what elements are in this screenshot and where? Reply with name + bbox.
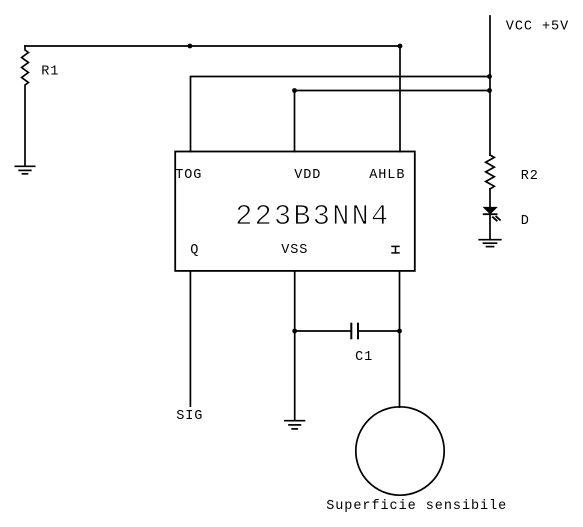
IC U1 223B3NN4 box: [175, 152, 415, 271]
resistor R2: [486, 155, 495, 189]
wire TOG pin to VCC rail: [191, 77, 490, 152]
junction dot TOG net at VCC rail: [487, 74, 492, 79]
junction dot VDD net at VCC rail: [487, 88, 492, 93]
svg-text:223B3NN4: 223B3NN4: [235, 200, 390, 233]
junction dot I-C1: [397, 329, 402, 334]
svg-text:C1: C1: [355, 350, 373, 365]
junction dot AHLB corner: [398, 44, 403, 49]
ground (R1): [15, 166, 34, 174]
svg-text:SIG: SIG: [176, 409, 203, 424]
svg-text:AHLB: AHLB: [369, 168, 405, 183]
svg-text:R2: R2: [521, 169, 539, 184]
wire top horizontal net from R1 to AHLB corner: [25, 45, 400, 47]
svg-text:Superficie sensibile: Superficie sensibile: [326, 499, 507, 514]
wire I pin down to sensor: [399, 271, 401, 407]
resistor R1: [22, 46, 29, 165]
wire AHLB pin up to top net: [399, 46, 401, 152]
sensor circle (superficie sensibile): [356, 407, 444, 495]
svg-text:D: D: [521, 214, 530, 229]
diode D (LED): [484, 189, 500, 239]
wire VCC rail vertical: [489, 16, 491, 155]
svg-text:Q: Q: [190, 243, 199, 258]
wire VSS pin down to ground: [294, 271, 296, 419]
svg-text:VSS: VSS: [281, 243, 308, 258]
svg-text:VDD: VDD: [294, 168, 321, 183]
junction dot VSS-C1: [292, 329, 297, 334]
capacitor C1: [295, 324, 400, 339]
ground (VSS): [285, 421, 305, 429]
junction dot on top wire: [188, 44, 193, 49]
wire Q pin to SIG: [189, 271, 191, 406]
junction dot VDD corner: [292, 88, 297, 93]
svg-text:R1: R1: [41, 65, 59, 80]
ground (below D): [479, 240, 501, 247]
svg-text:TOG: TOG: [175, 168, 202, 183]
wire VDD pin to VCC rail: [295, 91, 490, 152]
svg-text:VCC +5V: VCC +5V: [506, 20, 569, 35]
pin label I: [392, 246, 399, 253]
